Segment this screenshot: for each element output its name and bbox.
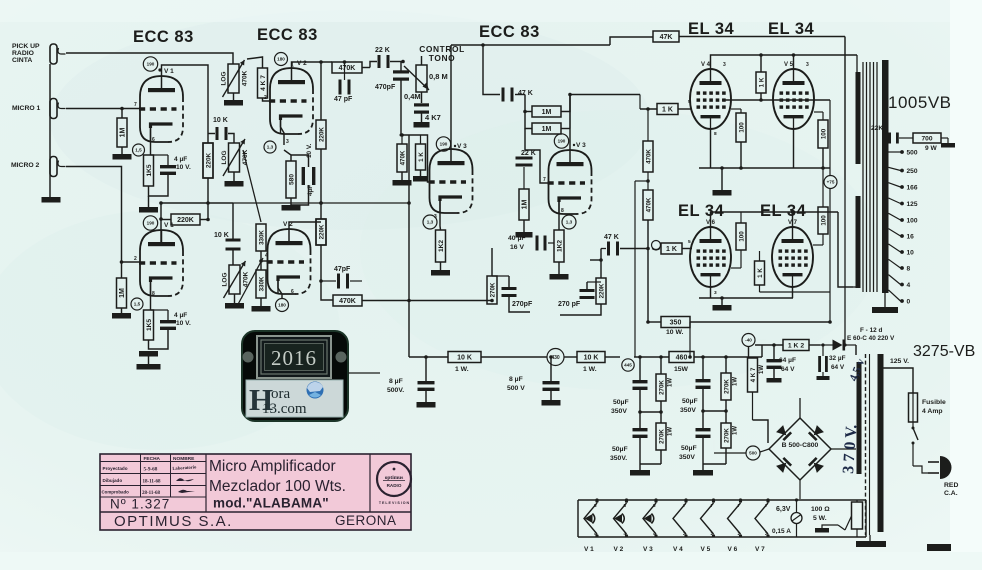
svg-text:V 3: V 3 bbox=[576, 142, 586, 149]
svg-text:470K: 470K bbox=[645, 149, 652, 164]
resistor 270K 1W c bbox=[721, 373, 731, 400]
svg-text:28-11-68: 28-11-68 bbox=[142, 491, 161, 496]
svg-text:V 1: V 1 bbox=[584, 546, 594, 553]
svg-text:4 µF: 4 µF bbox=[174, 312, 187, 319]
svg-text:3 7 0 V.: 3 7 0 V. bbox=[840, 424, 860, 474]
resistor 1K V4 grid bbox=[657, 104, 678, 115]
svg-text:3: 3 bbox=[434, 214, 437, 220]
svg-text:4 K 7: 4 K 7 bbox=[260, 75, 267, 91]
resistor 100 V5 cathode bbox=[818, 120, 828, 148]
pin circle 1,5 at V1a cathode bbox=[133, 144, 145, 156]
svg-text:22 K: 22 K bbox=[521, 150, 536, 157]
svg-text:16 V: 16 V bbox=[510, 244, 524, 251]
svg-text:1W: 1W bbox=[668, 378, 674, 387]
svg-text:8: 8 bbox=[152, 291, 155, 297]
wire V2b plate out bbox=[289, 222, 321, 229]
ground filter c bbox=[703, 463, 726, 465]
svg-text:350V.: 350V. bbox=[610, 455, 627, 462]
bridge diode top-right bbox=[808, 425, 824, 441]
wire pickup to volume pot bbox=[66, 53, 233, 64]
svg-text:MICRO 2: MICRO 2 bbox=[11, 162, 40, 169]
resistor 1K2 bias feed bbox=[783, 340, 809, 351]
wire tone to V3a grid bbox=[401, 80, 430, 182]
svg-text:700: 700 bbox=[921, 136, 932, 143]
capacitor 4uF 10V V2a cathode bbox=[302, 167, 305, 185]
resistor 270K 1W a bbox=[656, 374, 666, 401]
svg-text:470K: 470K bbox=[339, 65, 356, 72]
svg-text:2: 2 bbox=[738, 531, 741, 536]
wire rectifier to filter bbox=[714, 452, 746, 454]
ground pickup pot bbox=[233, 93, 235, 100]
svg-text:ECC 83: ECC 83 bbox=[133, 28, 194, 46]
svg-text:4: 4 bbox=[907, 282, 911, 289]
resistor 330K mixer micro1 bbox=[256, 224, 266, 251]
ground 1M resistor bbox=[121, 147, 123, 154]
pentode V4 EL34 bbox=[690, 69, 731, 129]
svg-text:FECHA: FECHA bbox=[144, 456, 161, 462]
svg-text:330K: 330K bbox=[258, 230, 265, 245]
wire V5 plate top bbox=[793, 55, 795, 69]
capacitor 4uF 10V V1a cathode bbox=[160, 165, 176, 168]
resistor 1K screen lower bbox=[755, 261, 765, 285]
heater V1 bbox=[584, 503, 597, 534]
svg-text:5: 5 bbox=[594, 503, 597, 508]
svg-text:ECC 83: ECC 83 bbox=[479, 23, 540, 41]
svg-text:10 V.: 10 V. bbox=[176, 320, 191, 327]
power transformer core dashes bbox=[865, 354, 867, 535]
wire V1b plate lead bbox=[160, 203, 162, 242]
resistor 220K V2a next grid leak bbox=[316, 120, 326, 149]
svg-text:15W: 15W bbox=[674, 366, 689, 373]
capacitor 22K V3b grid bbox=[516, 157, 533, 160]
resistor 1M feedback upper bbox=[532, 106, 561, 117]
svg-text:V 4: V 4 bbox=[673, 546, 683, 553]
svg-text:1K5: 1K5 bbox=[146, 164, 153, 176]
capacitor 47pF feedback upper bbox=[339, 80, 342, 95]
svg-text:0: 0 bbox=[907, 299, 911, 306]
wire V2a plate to coupling bbox=[292, 62, 333, 68]
svg-text:4: 4 bbox=[265, 253, 268, 259]
pin circle -40 bias bbox=[742, 334, 755, 347]
svg-text:7: 7 bbox=[683, 503, 686, 508]
resistor 1M micro2 grid leak bbox=[117, 278, 127, 308]
svg-text:1 K: 1 K bbox=[666, 246, 677, 253]
svg-text:5-9-68: 5-9-68 bbox=[144, 467, 158, 473]
watermark globe icon bbox=[307, 382, 324, 399]
input jack micro1 bbox=[50, 99, 57, 119]
svg-text:5: 5 bbox=[653, 503, 656, 508]
svg-text:7: 7 bbox=[765, 503, 768, 508]
pin circle 1,5 at V1b cathode bbox=[131, 298, 143, 310]
svg-text:2: 2 bbox=[683, 531, 686, 536]
wire 1K to V4 grid bbox=[678, 108, 692, 110]
wire bias line bbox=[755, 344, 783, 346]
wire micro2 pot wiper to mixer bbox=[236, 258, 263, 308]
svg-text:13.com: 13.com bbox=[262, 401, 307, 417]
wire V3a plate to top rail bbox=[450, 45, 452, 149]
bridge diode bottom-right bbox=[808, 457, 824, 473]
resistor 100 V7 bbox=[818, 207, 828, 234]
resistor 100 V4 cathode bbox=[736, 113, 746, 142]
pin circle 190 at V1b plate bbox=[143, 216, 157, 230]
pin circle 1,3 at V3b cathode bbox=[562, 215, 576, 229]
resistor 220K V1 plate load bbox=[203, 143, 213, 178]
svg-text:-40: -40 bbox=[745, 338, 752, 343]
resistor 1K V6 grid bbox=[661, 243, 682, 254]
ground output transformer bbox=[884, 293, 886, 307]
heater rail bottom bbox=[578, 536, 866, 538]
svg-text:64 V: 64 V bbox=[781, 366, 795, 373]
capacitor 47K lower grid bbox=[607, 242, 610, 256]
svg-text:50µF: 50µF bbox=[682, 398, 698, 405]
svg-text:8: 8 bbox=[714, 131, 717, 137]
svg-text:1W: 1W bbox=[668, 427, 674, 436]
svg-text:1K2: 1K2 bbox=[556, 240, 563, 252]
heater V5 bbox=[701, 503, 714, 534]
resistor 100 V6 bbox=[736, 223, 746, 250]
svg-text:350V: 350V bbox=[611, 408, 627, 415]
svg-text:6: 6 bbox=[291, 289, 294, 295]
svg-text:EL 34: EL 34 bbox=[678, 202, 725, 220]
ground micro1 pot bbox=[233, 172, 235, 181]
resistor 10K 1W second bbox=[577, 352, 605, 363]
resistor 270K 1W b bbox=[656, 423, 666, 450]
svg-text:64 V: 64 V bbox=[831, 364, 845, 371]
resistor 270K coupling lower-left bbox=[487, 276, 497, 304]
capacitor 47K coupling interstage bbox=[502, 88, 505, 102]
ground tone chain bbox=[421, 112, 423, 122]
wire micro1 pot wiper to mixer bbox=[243, 150, 261, 222]
OT tap 0 bbox=[889, 290, 901, 301]
pin circle 1,3 at V3a cathode bbox=[423, 215, 437, 229]
svg-text:ECC 83: ECC 83 bbox=[257, 26, 318, 44]
resistor 1M micro1 grid leak bbox=[117, 118, 127, 147]
wire V2b cathode bbox=[278, 281, 282, 298]
output transformer laminations bbox=[862, 62, 864, 292]
svg-text:1,5: 1,5 bbox=[135, 148, 142, 153]
resistor 470K V2a plate bbox=[332, 62, 362, 73]
wire cathode network to ground bbox=[149, 175, 169, 196]
svg-text:Mezclador 100 Wts.: Mezclador 100 Wts. bbox=[209, 478, 346, 495]
resistor 1K5 V1b cathode bbox=[144, 310, 154, 340]
svg-text:5: 5 bbox=[688, 99, 691, 105]
svg-text:470K: 470K bbox=[399, 150, 406, 165]
svg-text:166: 166 bbox=[907, 185, 918, 192]
capacitor 32uF 64V bbox=[818, 356, 821, 372]
svg-text:V 6: V 6 bbox=[728, 546, 738, 553]
wire 220V to transformer bbox=[855, 345, 857, 355]
svg-text:470K: 470K bbox=[645, 197, 652, 212]
watermark hora13 band bbox=[246, 380, 343, 417]
svg-text:Comprobado: Comprobado bbox=[102, 490, 130, 495]
wire 220K down to bus bbox=[320, 149, 322, 203]
resistor 220K V1b plate load bbox=[171, 214, 200, 225]
svg-text:3: 3 bbox=[286, 139, 289, 145]
wire from badge to schematic bbox=[348, 372, 380, 374]
wire OT center tap bbox=[844, 37, 846, 181]
resistor 4K7 V2a grid stopper bbox=[258, 68, 268, 98]
svg-text:10 K: 10 K bbox=[457, 355, 472, 362]
svg-text:10 V.: 10 V. bbox=[176, 164, 191, 171]
svg-text:C.A.: C.A. bbox=[944, 490, 958, 497]
svg-text:8 µF: 8 µF bbox=[389, 378, 403, 385]
svg-text:4 K 7: 4 K 7 bbox=[750, 367, 757, 382]
fuse Fusible 4 Amp bbox=[909, 393, 918, 422]
capacitor tone 4K7 chain bbox=[414, 103, 429, 106]
svg-text:4 Amp: 4 Amp bbox=[922, 408, 943, 415]
svg-text:B 500-C800: B 500-C800 bbox=[782, 442, 819, 449]
bias rail wire bbox=[748, 330, 750, 334]
svg-text:350V: 350V bbox=[679, 454, 695, 461]
resistor 47K supply dropper bbox=[653, 31, 679, 42]
svg-text:10: 10 bbox=[907, 250, 915, 257]
resistor 4K7 1W bias bbox=[748, 358, 758, 392]
svg-text:2: 2 bbox=[424, 176, 427, 182]
wire jack sleeve bus bbox=[49, 64, 51, 197]
resistor 460 15W bbox=[669, 352, 694, 363]
resistor 470K grid leak lower bbox=[643, 190, 653, 220]
pentode V7 EL34 bbox=[772, 227, 813, 287]
wire bridge top to bias bbox=[799, 398, 801, 418]
svg-text:1 K: 1 K bbox=[662, 107, 673, 114]
svg-text:1W: 1W bbox=[733, 377, 739, 386]
svg-text:V 3: V 3 bbox=[643, 546, 653, 553]
ground 1K tone load bbox=[420, 170, 422, 176]
svg-text:1,3: 1,3 bbox=[566, 220, 573, 225]
OT tap 16 bbox=[889, 229, 901, 236]
svg-text:470pF: 470pF bbox=[375, 84, 396, 91]
ground V2a cathode bbox=[282, 205, 301, 211]
wire V2a cathode network bbox=[281, 120, 285, 145]
wire 270K to V2 bus bbox=[409, 300, 492, 302]
power transformer secondary bar bbox=[878, 354, 884, 532]
pin circle 190 at V1a plate bbox=[143, 57, 157, 71]
svg-text:Dibujado: Dibujado bbox=[103, 478, 123, 483]
capacitor 50uF 350V c bbox=[696, 379, 711, 382]
heater rail right end bbox=[865, 500, 867, 537]
wire 1M input side bbox=[525, 95, 532, 129]
svg-text:22K: 22K bbox=[871, 125, 883, 132]
svg-text:4 K7: 4 K7 bbox=[425, 113, 441, 122]
ground input bus bbox=[42, 197, 61, 203]
svg-text:7: 7 bbox=[134, 102, 137, 108]
svg-text:100: 100 bbox=[907, 218, 918, 225]
wire rail right end bbox=[761, 345, 763, 357]
triode V1a ECC83 bbox=[140, 76, 183, 142]
wire V3b plate up bbox=[569, 95, 571, 151]
resistor 270K 1W d bbox=[721, 423, 731, 448]
svg-text:125: 125 bbox=[907, 201, 918, 208]
svg-text:10 V.: 10 V. bbox=[306, 143, 313, 158]
cathode bus lower pair bbox=[710, 287, 712, 298]
resistor 470K tone load bbox=[397, 144, 407, 172]
diode E60-C40 bbox=[833, 340, 843, 351]
svg-text:0,4M: 0,4M bbox=[404, 92, 421, 101]
svg-text:GERONA: GERONA bbox=[335, 513, 397, 528]
cathode bus upper pair bbox=[710, 129, 712, 168]
resistor 1K screen upper bbox=[756, 72, 766, 93]
wire 4K7 to V2a grid bbox=[263, 98, 272, 101]
svg-text:220K: 220K bbox=[318, 224, 325, 239]
svg-text:40 µF: 40 µF bbox=[508, 235, 526, 242]
svg-text:3: 3 bbox=[806, 62, 809, 68]
optimus radio logo circle bbox=[377, 462, 411, 496]
pin circle 430 bbox=[547, 349, 564, 366]
svg-text:Micro Amplificador: Micro Amplificador bbox=[209, 458, 336, 475]
wire V1a cathode network bbox=[150, 128, 152, 155]
resistor 580 V2a cathode bbox=[286, 161, 296, 198]
watermark 2016 frame bbox=[257, 336, 331, 378]
wire V3b grid feed bbox=[525, 129, 549, 184]
ground filter a bbox=[640, 463, 661, 465]
svg-text:100: 100 bbox=[738, 231, 745, 242]
heater rail top bbox=[578, 499, 866, 501]
svg-text:350: 350 bbox=[670, 320, 682, 327]
svg-text:190: 190 bbox=[147, 62, 155, 67]
resistor 1K2 V3b cathode bbox=[554, 230, 564, 262]
svg-text:220K: 220K bbox=[205, 152, 212, 168]
svg-text:5: 5 bbox=[688, 239, 691, 245]
svg-text:1: 1 bbox=[291, 63, 294, 69]
heater V7 bbox=[755, 503, 768, 534]
power transformer primary bar bbox=[857, 362, 862, 474]
svg-text:V 1: V 1 bbox=[164, 68, 174, 75]
svg-text:100: 100 bbox=[738, 122, 745, 133]
svg-text:220K: 220K bbox=[177, 217, 194, 224]
svg-text:1 K: 1 K bbox=[418, 152, 425, 162]
wire V7 plate bbox=[792, 212, 794, 227]
svg-text:270K: 270K bbox=[489, 282, 496, 297]
svg-text:5 W.: 5 W. bbox=[813, 515, 827, 522]
svg-text:100 Ω: 100 Ω bbox=[811, 506, 830, 513]
svg-text:125 V.: 125 V. bbox=[890, 358, 909, 365]
heater V4 bbox=[673, 503, 686, 534]
svg-text:2: 2 bbox=[765, 531, 768, 536]
pin circle 180 at V2a bbox=[275, 53, 288, 66]
ground upper pair cathodes bbox=[721, 168, 723, 190]
ground V3b cathode bbox=[558, 262, 560, 274]
OT tap 500 bbox=[889, 151, 901, 153]
ground V1a cathode bbox=[139, 207, 158, 213]
svg-text:220K: 220K bbox=[598, 283, 605, 298]
pin circle 180 at V2b bbox=[276, 299, 289, 312]
wire 1M to cathode bias bbox=[523, 220, 525, 232]
svg-text:3: 3 bbox=[714, 290, 717, 296]
OT tap 4 bbox=[889, 275, 901, 285]
wire PT bottom stem bbox=[869, 535, 871, 541]
resistor 220K coupling lower-right bbox=[596, 278, 606, 304]
svg-text:270pF: 270pF bbox=[512, 301, 533, 308]
svg-text:LOG: LOG bbox=[221, 71, 228, 85]
svg-text:3: 3 bbox=[723, 62, 726, 68]
wire couplers to lower grid line bbox=[600, 249, 602, 279]
wire V3b cathode to 1K2 bbox=[558, 198, 560, 230]
mains plug RED C.A. bbox=[940, 456, 952, 479]
capacitor 50uF 350V d bbox=[696, 428, 711, 431]
top supply rail bbox=[451, 44, 610, 46]
svg-text:1 W.: 1 W. bbox=[583, 366, 597, 373]
svg-text:190: 190 bbox=[440, 142, 448, 147]
wire V4 plate top bbox=[711, 55, 858, 69]
wire pot1 wiper to 4K7 bbox=[247, 57, 263, 68]
ground lower pair bbox=[721, 298, 723, 305]
wire V6 plate bbox=[711, 212, 839, 227]
wire micro2 to V1b grid bbox=[66, 167, 139, 263]
ground 470K tone load bbox=[401, 172, 403, 180]
svg-text:+75: +75 bbox=[827, 180, 835, 185]
wire OT primary top bbox=[855, 55, 858, 72]
watermark side ornaments bbox=[243, 352, 254, 363]
input jack pickup bbox=[50, 44, 57, 64]
svg-text:1K5: 1K5 bbox=[146, 319, 153, 331]
capacitor 270pF left bbox=[502, 287, 517, 290]
svg-text:270K: 270K bbox=[658, 380, 665, 395]
wire V1b cathode bbox=[150, 282, 152, 310]
svg-text:9 W: 9 W bbox=[925, 145, 937, 152]
capacitor 50uF 350V a bbox=[633, 380, 648, 383]
svg-text:RADIO: RADIO bbox=[12, 50, 34, 57]
svg-text:500 V: 500 V bbox=[507, 385, 525, 392]
ground mixer lower bbox=[260, 298, 262, 306]
svg-text:47 pF: 47 pF bbox=[334, 96, 353, 103]
svg-text:7: 7 bbox=[543, 177, 546, 183]
svg-text:250: 250 bbox=[907, 168, 918, 175]
svg-text:V 2: V 2 bbox=[614, 546, 624, 553]
OT tap 125 bbox=[889, 198, 901, 204]
bridge diode top-left bbox=[776, 425, 792, 441]
svg-text:10 W.: 10 W. bbox=[666, 329, 683, 336]
svg-text:1M: 1M bbox=[521, 199, 528, 209]
svg-text:V 3: V 3 bbox=[457, 143, 467, 150]
svg-text:190: 190 bbox=[558, 139, 566, 144]
svg-text:1,3: 1,3 bbox=[267, 145, 274, 150]
humdinger wiper and ground bbox=[845, 516, 852, 530]
wire OT primary bottom bbox=[838, 212, 853, 287]
title block pink table bbox=[100, 454, 411, 530]
svg-text:0,15 A: 0,15 A bbox=[772, 528, 791, 535]
svg-text:7: 7 bbox=[738, 503, 741, 508]
svg-text:Fusible: Fusible bbox=[922, 399, 946, 406]
svg-text:500: 500 bbox=[907, 150, 918, 157]
output transformer secondary bar bbox=[882, 60, 889, 293]
OT tap 250 bbox=[889, 167, 901, 170]
svg-text:OPTIMUS S.A.: OPTIMUS S.A. bbox=[114, 513, 233, 530]
ground micro2 1M bbox=[121, 308, 123, 313]
switch mains bbox=[912, 422, 914, 428]
wire V2b plate to 470K out bbox=[321, 245, 333, 300]
wire B+ down right side bbox=[844, 37, 846, 331]
resistor 700 9W bbox=[913, 133, 941, 143]
svg-text:2: 2 bbox=[134, 256, 137, 262]
bridge diode bottom-left bbox=[776, 457, 792, 473]
wire 125V tap to fuse bbox=[884, 368, 914, 393]
svg-text:PICK UP: PICK UP bbox=[12, 43, 40, 50]
resistor 1M V3b grid leak bbox=[519, 189, 529, 220]
svg-text:8: 8 bbox=[907, 266, 911, 273]
tube designator V1 bbox=[158, 68, 161, 71]
wire V2a cathode ground bbox=[290, 198, 292, 205]
svg-text:8: 8 bbox=[561, 208, 564, 214]
triode V3a ECC83 bbox=[430, 149, 473, 213]
capacitor 470pF tone bbox=[393, 70, 409, 73]
svg-text:E 60-C 40 220 V: E 60-C 40 220 V bbox=[847, 335, 895, 342]
capacitor 4uF 10V V1b cathode bbox=[160, 320, 176, 323]
svg-text:T E L E V I S I O N: T E L E V I S I O N bbox=[379, 501, 410, 505]
B+ rail bbox=[409, 356, 448, 358]
wire V1a plate to coupling node bbox=[162, 65, 209, 143]
svg-text:47pF: 47pF bbox=[334, 266, 351, 273]
triode V3b ECC83 phase splitter bbox=[549, 150, 592, 214]
